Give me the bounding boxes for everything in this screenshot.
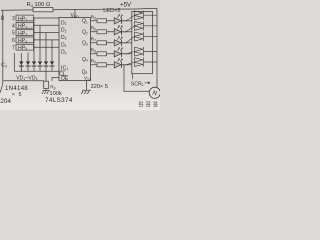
wire HP2 to D2 bbox=[34, 24, 60, 26]
resistor R4 bbox=[27, 2, 54, 12]
sensor HP5 bbox=[16, 44, 34, 51]
svg-text:HP2: HP2 bbox=[18, 24, 27, 30]
LED 5 bbox=[114, 59, 132, 68]
svg-text:D1: D1 bbox=[61, 20, 67, 26]
svg-text:VD1~VD5: VD1~VD5 bbox=[16, 75, 37, 81]
ground at R3 bbox=[42, 89, 50, 94]
resistor R9 bbox=[91, 59, 115, 67]
pin CL bbox=[59, 71, 66, 78]
SCR gate arrow bbox=[145, 82, 151, 84]
svg-text:HP3: HP3 bbox=[18, 31, 27, 37]
svg-text:R5: R5 bbox=[91, 15, 96, 21]
svg-text:HP5: HP5 bbox=[18, 46, 27, 52]
sensor HP4 bbox=[16, 37, 34, 44]
sensor HP2 bbox=[16, 22, 34, 29]
resistor R3 bbox=[44, 81, 56, 90]
wire HP5 to D5 bbox=[34, 46, 60, 48]
svg-text:C2: C2 bbox=[1, 63, 7, 69]
rows group bbox=[91, 15, 132, 68]
wire tap VD1 from HP5 row bbox=[27, 53, 29, 62]
svg-text:Q4: Q4 bbox=[82, 57, 88, 63]
array diode A1 bbox=[126, 11, 157, 21]
svg-text:4: 4 bbox=[12, 23, 15, 29]
ground at Vss bbox=[81, 90, 91, 94]
diode VD1 bbox=[26, 61, 31, 71]
background paper bbox=[0, 0, 160, 110]
diode VD2 bbox=[32, 61, 37, 71]
resistor R8 bbox=[91, 48, 115, 56]
resistor R7 bbox=[91, 37, 115, 45]
array diode A3 bbox=[126, 32, 157, 43]
wire VDD drop bbox=[74, 9, 76, 17]
svg-text:SCR1: SCR1 bbox=[131, 81, 144, 87]
wire HP1 to D1 bbox=[34, 17, 60, 19]
caption chinese text bbox=[139, 101, 158, 107]
wire HP4 to D4 bbox=[34, 39, 60, 41]
diode VD4 bbox=[44, 61, 49, 71]
svg-text:R8: R8 bbox=[91, 48, 96, 54]
wire row5 branch down to motor bbox=[124, 65, 149, 92]
svg-text:+5V: +5V bbox=[120, 2, 132, 9]
LED 2 bbox=[114, 26, 132, 35]
wire HP3 to D3 bbox=[34, 32, 60, 34]
svg-text:× 5: × 5 bbox=[12, 92, 23, 98]
diode VD0 extra bbox=[19, 61, 24, 71]
array diode A5 bbox=[126, 57, 157, 66]
motor M1 circle bbox=[149, 87, 160, 98]
svg-text:HP4: HP4 bbox=[18, 38, 27, 44]
wire tap VD4 from HP3 row bbox=[45, 33, 47, 62]
svg-text:D2: D2 bbox=[61, 28, 67, 34]
motor mark bbox=[153, 91, 157, 95]
svg-text:6: 6 bbox=[12, 38, 15, 44]
wire extra vertical left bbox=[14, 53, 21, 71]
IC U1 74LS374 box bbox=[59, 18, 91, 81]
svg-text:VSS: VSS bbox=[84, 76, 91, 82]
svg-text:VDD: VDD bbox=[71, 13, 80, 19]
svg-text:D5: D5 bbox=[61, 50, 67, 56]
resistor R6 bbox=[91, 26, 115, 34]
LED 1 bbox=[114, 15, 132, 24]
wire diode OR bus to CL bbox=[14, 70, 59, 72]
right side group bbox=[124, 11, 160, 108]
svg-text:R3: R3 bbox=[50, 85, 55, 91]
svg-text:D3: D3 bbox=[61, 35, 67, 41]
pin OE bbox=[61, 76, 69, 82]
wire common return at y81 bbox=[3, 80, 43, 82]
svg-text:204: 204 bbox=[0, 98, 11, 105]
wire Vss to ground bbox=[86, 81, 88, 91]
svg-text:D4: D4 bbox=[61, 42, 67, 48]
svg-text:3: 3 bbox=[12, 16, 15, 22]
wire top supply rail bbox=[1, 8, 157, 10]
wire left common vertical (pin 8) bbox=[0, 10, 3, 92]
wire tap VD2 from HP1 row bbox=[33, 18, 35, 61]
LED 4 bbox=[114, 48, 132, 57]
svg-text:74LS374: 74LS374 bbox=[45, 97, 73, 104]
wire OE stub bbox=[52, 78, 59, 81]
wire R3 top tap bbox=[45, 71, 47, 81]
LED array box bbox=[132, 12, 153, 74]
array diode A2 bbox=[126, 21, 157, 32]
sensor HP3 bbox=[16, 30, 34, 37]
svg-text:HP1: HP1 bbox=[18, 16, 27, 22]
svg-text:Q3: Q3 bbox=[82, 41, 88, 47]
sensor HP1 bbox=[16, 15, 34, 22]
array diode A4 bbox=[126, 47, 157, 56]
svg-text:Q1: Q1 bbox=[82, 19, 88, 25]
svg-text:Q2: Q2 bbox=[82, 30, 88, 36]
wire right +5V rail vertical bbox=[156, 8, 158, 87]
svg-text:R9: R9 bbox=[91, 59, 96, 65]
svg-text:220× 5: 220× 5 bbox=[91, 84, 108, 90]
svg-text:R6: R6 bbox=[91, 26, 96, 32]
wire tap VD3 from HP2 row bbox=[39, 25, 41, 61]
svg-text:LED×5: LED×5 bbox=[103, 8, 120, 14]
LED 3 bbox=[114, 37, 132, 46]
resistor R5 bbox=[91, 15, 115, 23]
wire array box to SCR bbox=[132, 74, 134, 80]
diode VD3 bbox=[38, 61, 43, 71]
svg-text:Q5: Q5 bbox=[82, 69, 88, 75]
svg-text:7: 7 bbox=[12, 45, 15, 51]
svg-text:IC1: IC1 bbox=[61, 65, 68, 71]
wire tap VD5 from HP4 row bbox=[51, 40, 53, 62]
svg-text:R7: R7 bbox=[91, 37, 96, 43]
svg-text:R4 100 Ω: R4 100 Ω bbox=[27, 2, 51, 8]
diode VD5 bbox=[50, 61, 55, 71]
svg-text:5: 5 bbox=[12, 31, 15, 37]
svg-text:OE: OE bbox=[61, 76, 69, 82]
